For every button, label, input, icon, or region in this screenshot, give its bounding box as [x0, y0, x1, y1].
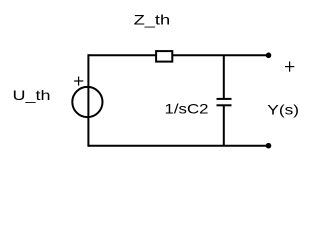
svg-text:Z_th: Z_th [134, 12, 171, 28]
svg-text:U_th: U_th [13, 87, 51, 103]
svg-text:Y(s): Y(s) [267, 102, 299, 118]
svg-text:1/sC2: 1/sC2 [165, 101, 209, 117]
